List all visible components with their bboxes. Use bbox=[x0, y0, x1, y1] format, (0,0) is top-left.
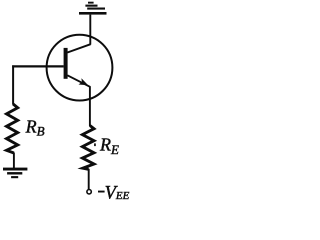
ground (bottom, under RB) bbox=[3, 168, 27, 179]
resistor RE bbox=[82, 126, 94, 170]
wire collector vertical bbox=[89, 15, 91, 45]
wire RE to terminal bbox=[88, 169, 90, 189]
wire base horizontal bbox=[12, 65, 63, 67]
wire RB to ground bbox=[13, 153, 15, 169]
ground (top, at collector) bbox=[79, 2, 107, 15]
resistor RB bbox=[7, 104, 18, 153]
wire emitter vertical bbox=[89, 86, 91, 126]
transistor Q1 bbox=[47, 35, 113, 101]
terminal -VEE (open circle) bbox=[87, 190, 91, 194]
wire base to RB bbox=[12, 65, 14, 104]
label -VEE bbox=[98, 191, 105, 193]
stray ink speck bbox=[94, 143, 96, 146]
